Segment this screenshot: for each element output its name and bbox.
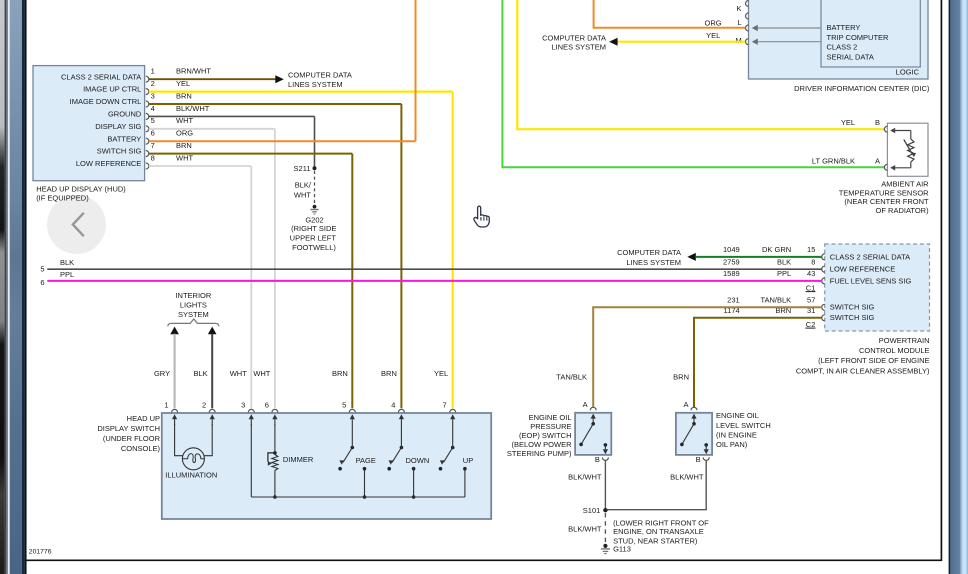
HUD switch pin 2 internal arrow [211, 419, 213, 425]
wire BLK to interior lights (arrow up) [208, 327, 217, 335]
DOWN switch blade [400, 446, 404, 450]
svg-text:BLK: BLK [777, 257, 791, 266]
svg-text:GRY: GRY [154, 369, 170, 378]
svg-text:COMPUTER DATA: COMPUTER DATA [542, 33, 606, 42]
HUD switch pin 3 internal arrow [250, 419, 252, 425]
splice S101 [603, 508, 607, 512]
engine oil level switch box [676, 413, 712, 455]
svg-text:BATTERY: BATTERY [827, 23, 861, 32]
svg-text:LOW REFERENCE: LOW REFERENCE [76, 159, 141, 168]
HUD switch pin 4 [398, 409, 404, 412]
DIC internal arrow to pin L [758, 27, 822, 29]
svg-text:DK GRN: DK GRN [762, 245, 791, 254]
svg-text:1589: 1589 [723, 269, 740, 278]
arrow computer data lines system (to DIC) [609, 38, 618, 46]
svg-text:201776: 201776 [29, 548, 52, 555]
window right chrome bar [943, 0, 968, 574]
svg-text:TEMPERATURE SENSOR: TEMPERATURE SENSOR [839, 188, 929, 197]
svg-text:CLASS 2: CLASS 2 [827, 43, 858, 52]
svg-text:(RIGHT SIDE: (RIGHT SIDE [291, 224, 336, 233]
svg-text:WHT: WHT [176, 116, 193, 125]
svg-text:TAN/BLK: TAN/BLK [760, 295, 791, 304]
svg-text:WHT: WHT [176, 153, 193, 162]
wire BRN 1174 from PCM to oil level switch [694, 318, 822, 408]
wire BRN pin3 horizontal [149, 103, 402, 105]
HUD switch pin 1 [172, 409, 178, 412]
svg-text:2: 2 [151, 79, 155, 88]
svg-text:8: 8 [151, 153, 155, 162]
svg-text:BRN: BRN [381, 369, 397, 378]
svg-text:B: B [595, 455, 600, 464]
svg-text:CONTROL MODULE: CONTROL MODULE [859, 346, 930, 355]
HUD switch pin 5 internal arrow [351, 419, 353, 425]
svg-text:1: 1 [151, 67, 155, 76]
PAGE switch contact [363, 467, 367, 471]
svg-text:BRN: BRN [176, 91, 192, 100]
PCM pin 43 FUEL LEVEL SENS SIG [822, 278, 825, 284]
DIC logic inner box [821, 0, 920, 67]
svg-text:PAGE: PAGE [356, 456, 376, 465]
svg-text:INTERIOR: INTERIOR [175, 291, 211, 300]
svg-text:BLK/WHT: BLK/WHT [568, 525, 602, 534]
dimmer wiring pin6 [274, 424, 276, 453]
powertrain control module PCM box [825, 244, 930, 331]
wire ORG pin6 vertical up to top edge [415, 0, 417, 141]
svg-text:BRN: BRN [332, 369, 348, 378]
engine oil level switch contact to pin B [704, 443, 708, 447]
svg-text:7: 7 [151, 141, 155, 150]
svg-text:YEL: YEL [176, 79, 190, 88]
back navigation button [47, 195, 106, 254]
svg-text:4: 4 [391, 400, 395, 409]
svg-text:(EOP) SWITCH: (EOP) SWITCH [519, 431, 572, 440]
svg-text:AMBIENT AIR: AMBIENT AIR [881, 180, 929, 189]
svg-text:2759: 2759 [723, 257, 740, 266]
svg-text:OF RADIATOR): OF RADIATOR) [876, 206, 930, 215]
svg-text:LT GRN/BLK: LT GRN/BLK [812, 156, 855, 165]
svg-text:LINES SYSTEM: LINES SYSTEM [626, 258, 681, 267]
svg-text:BLK/: BLK/ [295, 181, 312, 190]
HUD switch pin 5 [349, 409, 355, 412]
svg-text:DISPLAY SIG: DISPLAY SIG [95, 122, 141, 131]
svg-text:STUD, NEAR STARTER): STUD, NEAR STARTER) [613, 537, 698, 546]
wire BRN/WHT pin1 to computer data lines [149, 78, 276, 80]
DIC pin M [746, 39, 749, 45]
svg-text:STEERING PUMP): STEERING PUMP) [507, 449, 572, 458]
svg-text:LIGHTS: LIGHTS [180, 301, 207, 310]
illumination lamp wiring [175, 424, 183, 456]
svg-text:BRN/WHT: BRN/WHT [176, 67, 211, 76]
svg-text:ORG: ORG [705, 18, 722, 27]
wire GRY to interior lights (arrow up) [170, 327, 179, 335]
window left chrome bar [0, 0, 27, 574]
dimmer junction dot [273, 451, 277, 455]
ambient sensor thermistor R [892, 130, 911, 132]
svg-text:(BELOW POWER: (BELOW POWER [511, 440, 572, 449]
svg-text:2: 2 [202, 400, 206, 409]
engine oil level switch contact arrow up [693, 419, 695, 424]
svg-text:(IF EQUIPPED): (IF EQUIPPED) [36, 194, 89, 203]
svg-text:(LEFT FRONT SIDE OF ENGINE: (LEFT FRONT SIDE OF ENGINE [818, 356, 929, 365]
svg-text:DIMMER: DIMMER [283, 455, 314, 464]
DIC internal arrow to pin M [758, 41, 822, 43]
arrow computer data lines system (PCM) [687, 253, 696, 261]
wire WHT pin8 horizontal [149, 165, 252, 167]
svg-text:OIL PAN): OIL PAN) [716, 440, 748, 449]
svg-text:A: A [583, 400, 588, 409]
svg-text:(NEAR CENTER FRONT: (NEAR CENTER FRONT [844, 197, 929, 206]
svg-text:DRIVER INFORMATION CENTER (DIC: DRIVER INFORMATION CENTER (DIC) [794, 84, 930, 93]
svg-text:PRESSURE: PRESSURE [530, 422, 571, 431]
svg-text:57: 57 [807, 295, 815, 304]
svg-text:TAN/BLK: TAN/BLK [556, 373, 587, 382]
svg-text:COMPT, IN AIR CLEANER ASSEMBLY: COMPT, IN AIR CLEANER ASSEMBLY) [796, 366, 930, 375]
DIC pin bump row1 [746, 1, 749, 7]
UP switch contact [463, 467, 467, 471]
engine oil pressure (EOP) switch pin B [602, 457, 608, 460]
ambient sensor pin A [884, 164, 887, 170]
svg-text:WHT: WHT [294, 190, 311, 199]
ambient sensor pin B [884, 126, 887, 132]
HUD switch pin 3 [248, 409, 254, 412]
HUD switch pin 2 [209, 409, 215, 412]
svg-text:CLASS 2 SERIAL DATA: CLASS 2 SERIAL DATA [61, 72, 141, 81]
wire WHT pin5 vertical down to switch pin6 [274, 129, 276, 409]
PCM pin 8 LOW REFERENCE [822, 266, 825, 272]
svg-text:YEL: YEL [706, 31, 720, 40]
wire LT GRN/BLK from top to ambient sensor pin A [502, 0, 884, 167]
engine oil pressure (EOP) switch box [575, 413, 611, 455]
svg-text:(IN ENGINE: (IN ENGINE [716, 430, 757, 439]
svg-text:43: 43 [807, 269, 815, 278]
svg-text:A: A [683, 400, 688, 409]
svg-text:BLK: BLK [194, 369, 208, 378]
wire BLK/WHT from EOP pin B to S101 [604, 461, 606, 508]
HUD switch pin 6 [272, 409, 278, 412]
page bottom border [26, 559, 942, 561]
wire BLK/WHT dashed to G113 [604, 513, 606, 543]
svg-text:LINES SYSTEM: LINES SYSTEM [288, 80, 343, 89]
PCM pin 31 SWITCH SIG [822, 315, 825, 321]
wire BRN pin3 vertical down to switch pin4 [400, 104, 402, 408]
svg-text:A: A [875, 156, 880, 165]
down bus dot [412, 495, 416, 499]
wire BLK/WHT dashed to G202 [314, 171, 316, 204]
page right border [940, 0, 942, 561]
dimmer rheostat [272, 455, 278, 471]
engine oil pressure (EOP) switch pin A [590, 407, 596, 410]
svg-text:LINES SYSTEM: LINES SYSTEM [551, 43, 606, 52]
DOWN switch contact [412, 467, 416, 471]
svg-text:L: L [738, 18, 742, 27]
wire DK GRN to computer data lines system [696, 256, 822, 258]
svg-text:PPL: PPL [60, 270, 74, 279]
wire YEL pin2 horizontal [149, 90, 453, 92]
svg-text:DISPLAY SWITCH: DISPLAY SWITCH [97, 424, 160, 433]
illumination lamp [182, 448, 204, 470]
page left border [25, 0, 27, 574]
svg-text:TRIP COMPUTER: TRIP COMPUTER [827, 33, 890, 42]
PCM pin 15 CLASS 2 SERIAL DATA [822, 254, 825, 260]
dimmer wiper arrow [268, 453, 275, 462]
svg-text:S211: S211 [294, 164, 311, 173]
svg-text:3: 3 [151, 91, 155, 100]
svg-text:ORG: ORG [176, 129, 193, 138]
svg-text:BATTERY: BATTERY [107, 134, 141, 143]
svg-text:BLK: BLK [60, 258, 74, 267]
svg-text:1049: 1049 [723, 245, 740, 254]
svg-text:ENGINE, ON TRANSAXLE: ENGINE, ON TRANSAXLE [613, 527, 704, 536]
wire WHT pin8 vertical down to switch pin3 [250, 166, 252, 408]
svg-text:DOWN: DOWN [406, 456, 430, 465]
engine oil pressure (EOP) switch contact arrow up [592, 419, 594, 424]
dimmer bus dot [273, 495, 277, 499]
engine oil level switch switch blade [692, 422, 696, 426]
svg-text:SWITCH SIG: SWITCH SIG [830, 313, 875, 322]
svg-text:G202: G202 [305, 215, 323, 224]
engine oil pressure (EOP) switch contact to pin B [604, 443, 608, 447]
svg-text:WHT: WHT [230, 369, 247, 378]
svg-text:YEL: YEL [434, 369, 448, 378]
svg-text:ILLUMINATION: ILLUMINATION [165, 471, 217, 480]
DIC pin K [746, 13, 749, 19]
svg-text:BLK/WHT: BLK/WHT [670, 473, 704, 482]
svg-text:5: 5 [342, 400, 346, 409]
wire BLK circuit 2759 [47, 268, 822, 270]
switch common bus wire [251, 496, 465, 498]
page bus dot [363, 495, 367, 499]
svg-text:LOW REFERENCE: LOW REFERENCE [830, 265, 895, 274]
head up display (HUD) box [33, 66, 145, 181]
svg-text:B: B [875, 118, 880, 127]
wire YEL to DIC pin M from computer data lines [618, 41, 746, 43]
svg-text:S101: S101 [583, 506, 601, 515]
svg-text:8: 8 [811, 257, 815, 266]
svg-text:SERIAL DATA: SERIAL DATA [827, 52, 874, 61]
interior lights system brace [168, 319, 219, 326]
HUD switch pin 7 [450, 409, 456, 412]
wire YEL pin2 vertical down to switch pin7 [452, 92, 454, 409]
HUD switch pin 7 internal arrow [452, 419, 454, 425]
svg-text:15: 15 [807, 245, 815, 254]
svg-text:5: 5 [40, 264, 44, 273]
svg-text:4: 4 [151, 104, 155, 113]
svg-text:CONSOLE): CONSOLE) [121, 444, 161, 453]
svg-text:COMPUTER DATA: COMPUTER DATA [288, 71, 352, 80]
svg-text:SWITCH SIG: SWITCH SIG [97, 147, 142, 156]
wire TAN/BLK 231 from PCM to EOP switch [593, 307, 822, 407]
svg-text:7: 7 [443, 400, 447, 409]
svg-text:GROUND: GROUND [108, 110, 142, 119]
svg-text:BLK/WHT: BLK/WHT [568, 473, 602, 482]
svg-text:3: 3 [241, 400, 245, 409]
svg-text:BLK/WHT: BLK/WHT [176, 104, 210, 113]
HUD switch pin 1 internal arrow [174, 419, 176, 425]
svg-text:231: 231 [727, 295, 740, 304]
svg-text:POWERTRAIN: POWERTRAIN [879, 336, 930, 345]
wire ORG pin6 horizontal [149, 140, 416, 142]
wire BLK/WHT pin4 horizontal [149, 115, 315, 117]
svg-text:IMAGE DOWN CTRL: IMAGE DOWN CTRL [70, 97, 142, 106]
svg-text:WHT: WHT [253, 369, 270, 378]
svg-text:HEAD UP DISPLAY (HUD): HEAD UP DISPLAY (HUD) [36, 184, 126, 193]
wire BRN pin7 vertical down to switch pin5 [351, 154, 353, 409]
svg-text:YEL: YEL [841, 118, 855, 127]
ground G113 [603, 544, 607, 548]
head up display switch box [162, 413, 491, 519]
UP switch blade [451, 446, 455, 450]
svg-text:UP: UP [463, 456, 473, 465]
svg-text:6: 6 [265, 400, 269, 409]
hand cursor [474, 206, 489, 227]
svg-text:(UNDER FLOOR: (UNDER FLOOR [103, 434, 161, 443]
svg-text:6: 6 [151, 129, 155, 138]
svg-text:FOOTWELL): FOOTWELL) [292, 243, 336, 252]
arrow to computer data lines system [275, 75, 284, 83]
svg-text:M: M [735, 36, 741, 45]
PCM pin 57 SWITCH SIG [822, 304, 825, 310]
wire WHT pin5 horizontal [149, 128, 275, 130]
svg-text:BRN: BRN [176, 141, 192, 150]
wire BLK/WHT pin4 vertical down to S211 [314, 116, 316, 167]
ground G202 [313, 205, 317, 209]
wire ORG to DIC pin L [594, 0, 746, 28]
wire BRN pin7 horizontal [149, 153, 352, 155]
engine oil pressure (EOP) switch switch blade [591, 422, 595, 426]
svg-text:COMPUTER DATA: COMPUTER DATA [617, 248, 681, 257]
svg-text:BRN: BRN [673, 373, 689, 382]
HUD switch pin 6 internal arrow [274, 419, 276, 425]
svg-text:LEVEL SWITCH: LEVEL SWITCH [716, 421, 771, 430]
wire PPL circuit 1589 [47, 280, 822, 282]
driver information center DIC outer box [749, 0, 929, 79]
wire YEL from top to ambient sensor pin B [517, 0, 884, 129]
svg-text:G113: G113 [613, 545, 631, 554]
svg-text:B: B [696, 455, 701, 464]
svg-text:ENGINE OIL: ENGINE OIL [716, 411, 759, 420]
svg-text:CLASS 2 SERIAL DATA: CLASS 2 SERIAL DATA [830, 252, 910, 261]
splice S211 [313, 166, 317, 170]
wire BLK/WHT from oil level pin B to S101 [608, 461, 707, 510]
svg-text:1: 1 [164, 400, 168, 409]
svg-text:HEAD UP: HEAD UP [127, 414, 160, 423]
svg-text:ENGINE OIL: ENGINE OIL [529, 413, 572, 422]
svg-text:5: 5 [151, 116, 155, 125]
dimmer wiring pin3 [250, 424, 252, 497]
svg-text:PPL: PPL [777, 269, 791, 278]
engine oil level switch pin A [691, 407, 697, 410]
svg-text:IMAGE UP CTRL: IMAGE UP CTRL [83, 85, 141, 94]
svg-text:6: 6 [40, 278, 44, 287]
HUD switch pin 4 internal arrow [400, 419, 402, 425]
ambient air temperature sensor box [887, 123, 928, 176]
svg-text:UPPER LEFT: UPPER LEFT [290, 234, 337, 243]
engine oil level switch pin B [703, 457, 709, 460]
svg-text:SYSTEM: SYSTEM [178, 310, 209, 319]
svg-text:LOGIC: LOGIC [896, 68, 920, 77]
svg-text:K: K [736, 4, 741, 13]
DIC pin L [746, 25, 749, 31]
svg-text:SWITCH SIG: SWITCH SIG [830, 303, 875, 312]
svg-text:FUEL LEVEL SENS SIG: FUEL LEVEL SENS SIG [830, 276, 912, 285]
PAGE switch blade [351, 446, 355, 450]
thermistor diagonal arrow [904, 140, 913, 156]
